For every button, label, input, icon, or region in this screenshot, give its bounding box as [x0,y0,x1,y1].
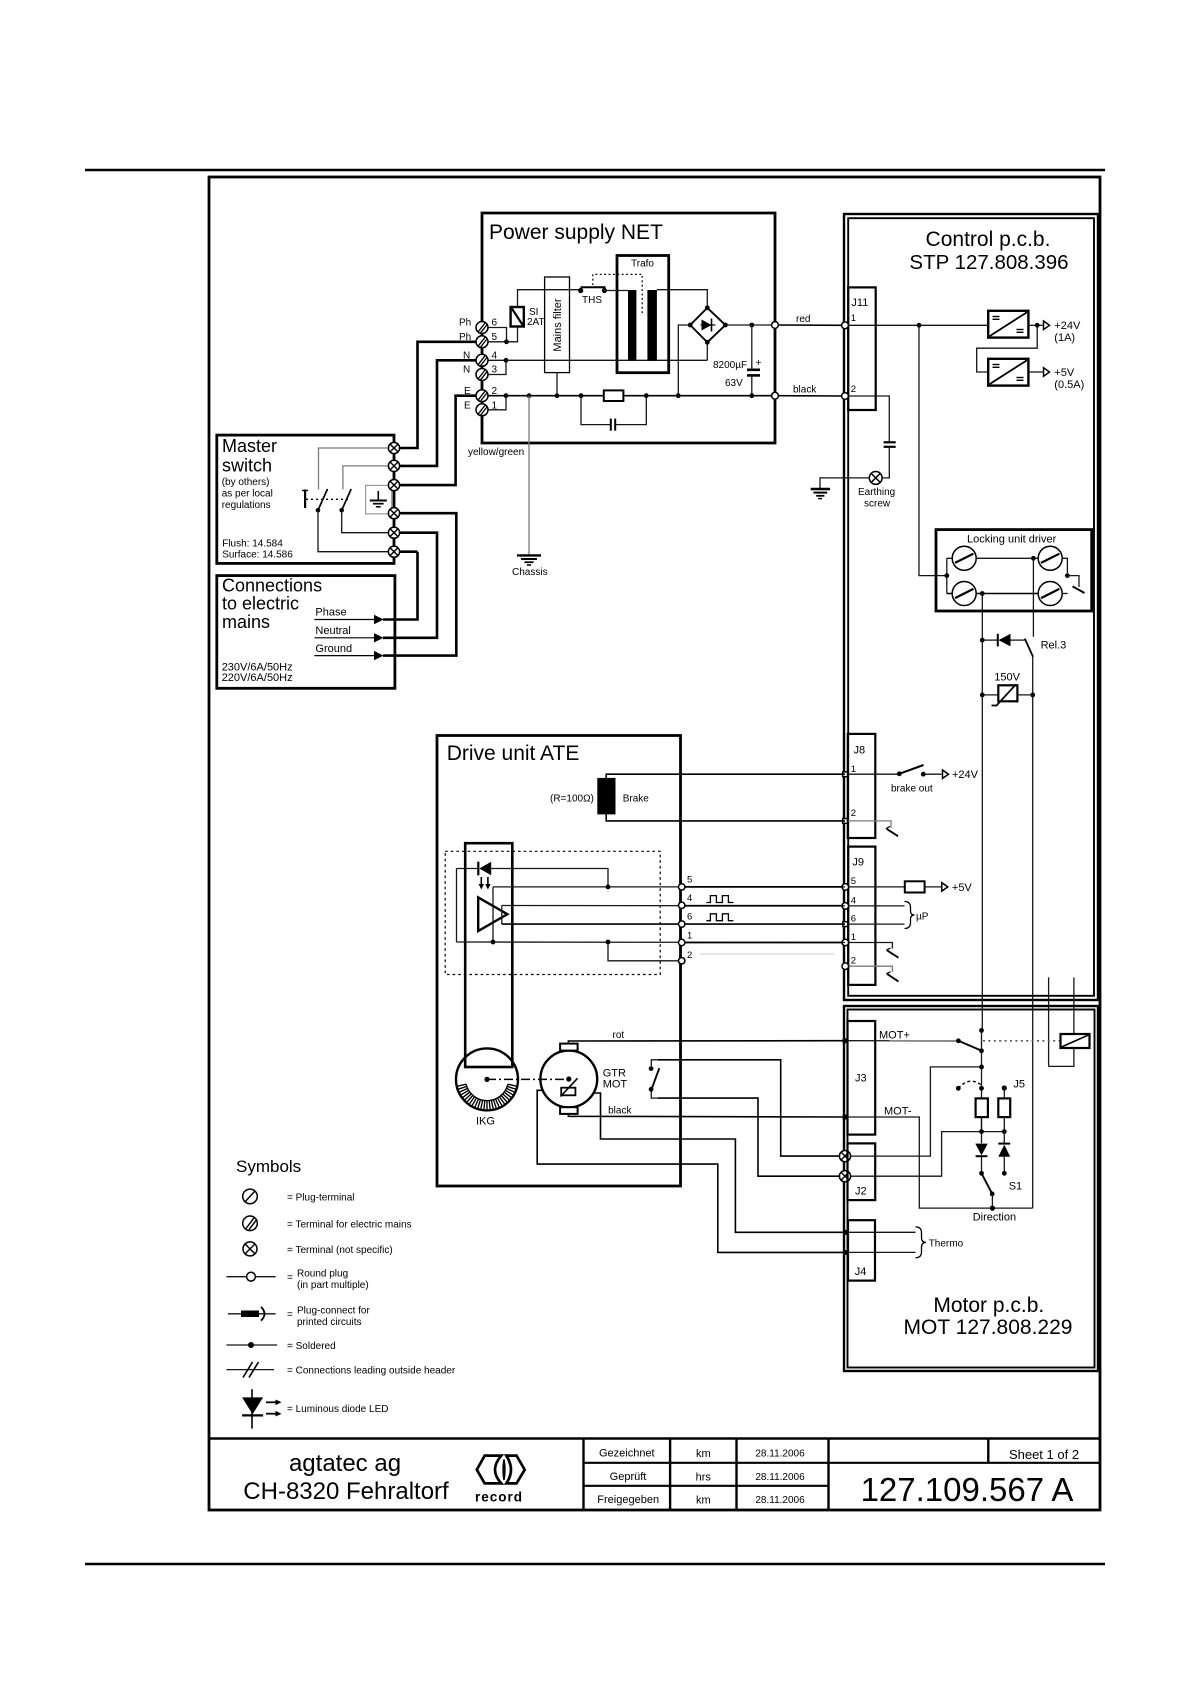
wire2 jog [608,942,682,961]
svg-text:220V/6A/50Hz: 220V/6A/50Hz [222,672,293,684]
locking plug BL [952,582,976,606]
wire [993,366,1000,368]
arrow +5V [1044,368,1050,377]
box [560,1044,578,1051]
junction [990,1192,995,1197]
svg-text:Symbols: Symbols [236,1157,301,1176]
wire [982,694,1032,696]
svg-text:Earthing: Earthing [858,487,895,498]
svg-text:Phase: Phase [315,607,346,619]
J9-1 wire and contact [848,943,892,949]
J8-2 wire and contact [848,821,891,828]
drive switch wire lower to motor pcb [658,1098,839,1176]
THS switch [578,288,583,293]
svg-text:4: 4 [492,351,498,362]
wire [651,1092,658,1099]
svg-text:MOT+: MOT+ [879,1030,910,1042]
wire [1003,1157,1005,1174]
encoder head box [465,843,512,1067]
legend terminal not specific [243,1242,257,1256]
svg-text:Motor p.c.b.: Motor p.c.b. [933,1294,1044,1317]
svg-text:6: 6 [492,318,498,329]
terminal X1 [839,1151,850,1162]
svg-text:(by others): (by others) [222,477,270,488]
wire [943,770,949,778]
wire [521,558,537,560]
svg-text:CH-8320 Fehraltorf: CH-8320 Fehraltorf [243,1478,449,1505]
wire [1062,1035,1089,1047]
svg-text:(1A): (1A) [1054,332,1075,344]
wire [1017,331,1024,333]
svg-text:Geprüft: Geprüft [610,1471,647,1483]
main drawing frame [209,177,1100,1510]
wire pole2 top [343,466,388,490]
wire [981,1156,983,1173]
svg-text:Thermo: Thermo [929,1239,964,1250]
LED diode [477,862,479,876]
wire [383,533,437,638]
wire [342,489,352,510]
junction [979,1048,984,1053]
svg-text:+24V: +24V [952,769,979,781]
direction relay switch [979,1028,984,1033]
wire [990,312,1028,336]
direction switch in drive [651,1060,658,1066]
svg-text:N: N [463,351,470,362]
svg-text:MOT 127.808.229: MOT 127.808.229 [904,1316,1073,1339]
SEC:PAGE [85,170,1105,1564]
connector J2 [848,1143,876,1200]
junction [649,1066,654,1071]
wire [958,1041,981,1051]
wire terminal6 down to phase [400,550,418,553]
junction [1065,573,1070,578]
svg-text:5: 5 [687,875,692,886]
node j56 [504,339,509,344]
svg-text:J9: J9 [852,857,864,869]
wire 24V down to locking unit [919,325,947,575]
Rel3 flyback diode [980,638,985,643]
svg-text:switch: switch [222,456,272,476]
svg-text:2: 2 [851,384,856,395]
svg-text:Surface: 14.586: Surface: 14.586 [222,550,293,561]
Rel3 switch [1025,639,1033,657]
wire [990,360,1028,384]
wire [383,552,418,620]
THS dotted link to trafo [593,274,642,313]
junction [749,323,754,328]
wire [251,1389,253,1428]
diode D1 down [981,1132,983,1144]
wire [1067,576,1079,587]
junction [527,393,532,398]
wire [747,374,760,377]
wire [261,1307,265,1321]
shaft dash-dot [487,1078,569,1080]
svg-text:to electric: to electric [222,594,299,614]
svg-text:6: 6 [687,912,692,923]
wire [1073,586,1085,593]
wire [318,489,328,510]
wire [487,877,489,886]
wire [981,1030,983,1131]
connector J9 [848,847,875,985]
thick wire overlays rows 5 4 1 [685,886,843,888]
svg-text:brake out: brake out [891,784,933,795]
svg-text:= Terminal for electric mains: = Terminal for electric mains [287,1220,412,1231]
wire [925,886,941,888]
wire secondary top to bridge [657,290,707,308]
svg-text:J4: J4 [855,1266,867,1278]
LED emission arrows [479,877,491,890]
plug pin [679,921,685,927]
power supply box [482,213,775,443]
terminal N4 [476,354,488,366]
wire [276,1411,282,1417]
legend plug-connect [228,1307,276,1321]
svg-text:+5V: +5V [1054,367,1075,379]
wire4 to J9 [502,905,845,907]
wire locking BL-BR junction down [981,594,983,1031]
svg-text:Round plug: Round plug [297,1269,348,1280]
svg-text:+24V: +24V [1054,320,1081,332]
wire [241,1311,259,1318]
drive edge round plugs [679,884,685,890]
svg-text:63V: 63V [725,378,743,389]
svg-text:2: 2 [851,956,856,967]
motor pcb inner box [848,1010,1095,1368]
wire [652,1068,660,1089]
wire [1032,657,1034,695]
svg-text:Flush: 14.584: Flush: 14.584 [222,539,283,550]
terminal Ph5 [476,336,488,348]
svg-text:4: 4 [851,896,856,907]
E bus continues [623,395,775,397]
wire [735,1439,737,1511]
svg-text:J3: J3 [855,1073,867,1085]
wire THS to trafo primary [604,290,628,292]
capacitor to earth [884,441,896,443]
junction [979,1171,984,1176]
wire [477,1456,502,1484]
J9-5 wire to +5V [848,886,905,888]
wire pole1 bottom to terminal6 [318,511,388,552]
wire [886,972,890,974]
master terminal 6 [388,546,399,557]
svg-text:hrs: hrs [696,1472,712,1484]
junction [579,393,584,398]
wire [998,1143,1010,1145]
svg-text:Rel.3: Rel.3 [1041,640,1067,652]
wire [982,639,997,641]
wire [992,684,1017,705]
svg-text:1: 1 [851,764,856,775]
rot wire to J3 [568,1041,845,1044]
svg-text:1: 1 [851,313,856,324]
svg-text:mains: mains [222,612,270,632]
wire [1003,1088,1005,1098]
wire [848,1251,916,1253]
resistor bottoms join [982,1117,1005,1132]
thermo node B [843,1250,848,1255]
svg-text:printed circuits: printed circuits [297,1317,361,1328]
junction [990,1206,995,1211]
wire TL-TR [947,557,1038,559]
wire [887,974,898,981]
svg-text:127.109.567 A: 127.109.567 A [861,1471,1074,1508]
plug pin [679,939,685,945]
plug pin [679,958,685,964]
box [988,359,1028,386]
wire [1062,593,1067,595]
relay coil [1061,1034,1090,1048]
svg-text:black: black [608,1106,632,1117]
terminal E2 [476,390,488,402]
svg-text:MOT: MOT [603,1079,628,1091]
earth box in master switch [366,485,392,514]
master terminal 2 [388,460,399,471]
mains filter box [545,277,570,373]
wire [997,634,999,647]
wire [887,829,898,836]
svg-text:=: = [287,1273,293,1284]
record logo [477,1456,525,1484]
dashed alt contact arc [956,1086,961,1091]
wire [479,862,491,876]
square wave glyph wire4 [706,896,733,903]
wire [987,1439,989,1463]
terminal X2 [839,1171,850,1182]
wire E2 from master [400,396,476,485]
svg-text:= Terminal (not specific): = Terminal (not specific) [287,1245,393,1256]
locking plug TR [1038,546,1062,570]
wire secondary bottom to bridge [706,342,708,360]
wire [584,1485,829,1487]
arrow +24V [1044,321,1050,330]
svg-text:km: km [696,1495,711,1507]
junction [1002,1129,1007,1134]
thermo wires [848,1231,916,1233]
title block top line [209,1437,1100,1440]
trafo secondary winding [647,290,657,361]
wire [887,950,898,957]
SEC:DRIVE [437,736,846,1253]
svg-text:Control p.c.b.: Control p.c.b. [926,228,1051,251]
brake resistor [597,778,615,815]
wire1 to J9 [457,941,846,944]
master terminal 1 [388,442,399,453]
wire converter1 out [1028,324,1042,326]
junction [688,323,693,328]
brush wire B [537,1090,846,1252]
svg-text:Drive unit ATE: Drive unit ATE [447,742,580,765]
wire [242,1397,263,1414]
plug pin [679,902,685,908]
wire [991,1194,993,1208]
svg-text:1: 1 [851,932,856,943]
wire [814,492,828,494]
connector J11 [848,287,876,410]
wire red to J11-1 [778,324,845,326]
wire [517,554,541,556]
wire locking TL-TR junction down to Rel3 [1032,558,1034,637]
svg-text:+: + [756,358,762,369]
yellow/green wire to chassis [528,396,530,555]
svg-text:Brake: Brake [623,794,650,805]
J9-2 wire and contact [848,966,892,972]
legend terminal for electric mains [243,1216,258,1231]
svg-text:Ph: Ph [459,318,471,329]
svg-text:Direction: Direction [973,1212,1016,1224]
wire [479,884,484,890]
svg-text:Freigegeben: Freigegeben [597,1494,659,1506]
svg-text:28.11.2006: 28.11.2006 [755,1472,805,1483]
connections to electric mains box [217,576,395,689]
title block rows [584,1462,1101,1464]
svg-text:= Luminous diode LED: = Luminous diode LED [287,1404,388,1415]
relay drive stub B [1073,977,1075,1034]
junction [504,358,509,363]
wire [882,447,889,478]
wire J11-1 to converter [848,324,988,326]
wire [747,368,760,371]
wire [827,1439,829,1511]
wire [899,765,923,774]
junction [644,393,649,398]
GTR MOT motor [540,1051,597,1108]
svg-text:km: km [696,1448,711,1460]
svg-text:= Connections leading outside: = Connections leading outside header [287,1366,456,1377]
svg-text:J2: J2 [855,1186,867,1198]
SEC:LEGEND [226,1157,455,1429]
MOT+ node [843,1038,848,1043]
mains filter lead to E bus [556,373,558,396]
box [561,1088,575,1096]
MOT- wire down [848,1117,1033,1208]
wire terminal6 to fuse [488,328,507,342]
terminal Ph6 [476,322,488,334]
svg-text:=: = [287,1310,293,1321]
wire terminal3 jog [488,360,506,374]
master terminal 4 [388,508,399,519]
svg-text:J8: J8 [854,745,866,757]
svg-text:E: E [464,386,471,397]
wire [886,948,890,950]
legend plug-terminal [243,1189,258,1204]
svg-text:8200µF: 8200µF [713,360,747,371]
svg-text:yellow/green: yellow/green [468,447,524,458]
wire [228,1313,276,1315]
locking left bus [946,558,948,593]
svg-text:6: 6 [851,914,856,925]
wire [527,564,531,566]
wire [886,826,890,828]
pin J8-2 [843,819,848,824]
wire [999,634,1011,647]
terminal E1 [476,404,488,416]
svg-text:record: record [475,1490,523,1505]
control pcb inner box [848,218,1094,996]
junction [491,940,496,945]
box [905,881,925,892]
svg-text:5: 5 [851,876,856,887]
wire [266,1401,278,1403]
svg-text:(R=100Ω): (R=100Ω) [550,794,594,805]
faint link wire J9-2 [700,953,834,955]
wire [314,619,374,621]
wire [975,1144,987,1156]
wire5 to J9 [493,886,845,888]
relay coil bottom wire [1049,1048,1074,1066]
wire [374,651,384,660]
round plug black at box edge [772,392,779,399]
brush wire A [593,1093,846,1232]
junction [980,591,985,596]
junction [1030,693,1035,698]
wire E2 bus [488,395,604,397]
junction [749,393,754,398]
wire [581,396,646,425]
junction [979,1129,984,1134]
pin J9-1 [842,939,849,946]
wire5 corner [492,887,494,942]
svg-text:THS: THS [582,295,602,306]
junction [649,1087,654,1092]
svg-text:agtatec ag: agtatec ag [289,1450,401,1477]
DC converter 5V [988,359,1028,386]
junction [1035,323,1040,328]
brake out switch [848,773,899,775]
wire [993,316,1000,318]
dashed encoder boundary [445,851,660,974]
uP brace [905,902,915,929]
pin J9-2 [842,963,849,970]
SEC:CONTROL [700,214,1098,1208]
wire [923,773,941,775]
control pcb outer box [844,214,1098,1000]
svg-text:Master: Master [222,436,277,456]
wire [383,513,456,655]
wire [811,488,830,490]
svg-text:28.11.2006: 28.11.2006 [755,1495,805,1506]
svg-text:28.11.2006: 28.11.2006 [755,1449,805,1460]
wire [377,491,379,501]
SEC:POWER [400,213,845,578]
trafo box [617,256,669,373]
wire BL-BR [947,593,1038,595]
wire [503,1460,505,1481]
earthing screw terminal [869,472,882,485]
master terminal 5 [388,527,399,538]
legend LED [242,1389,281,1428]
DC converter 24V [988,311,1028,338]
svg-text:Ph: Ph [459,332,471,343]
wire [512,308,524,326]
top page rule [85,169,1105,172]
junction [484,1077,489,1082]
svg-text:µP: µP [916,912,929,923]
resistor on E bus [604,390,624,401]
svg-text:= Soldered: = Soldered [287,1341,336,1352]
wire [1011,639,1025,641]
wire [685,905,843,907]
wire [685,942,843,944]
svg-text:Ground: Ground [315,643,352,655]
chassis earth symbol [517,555,541,565]
svg-text:Gezeichnet: Gezeichnet [599,1448,655,1460]
trafo primary winding [628,290,636,361]
svg-text:1: 1 [687,931,692,942]
